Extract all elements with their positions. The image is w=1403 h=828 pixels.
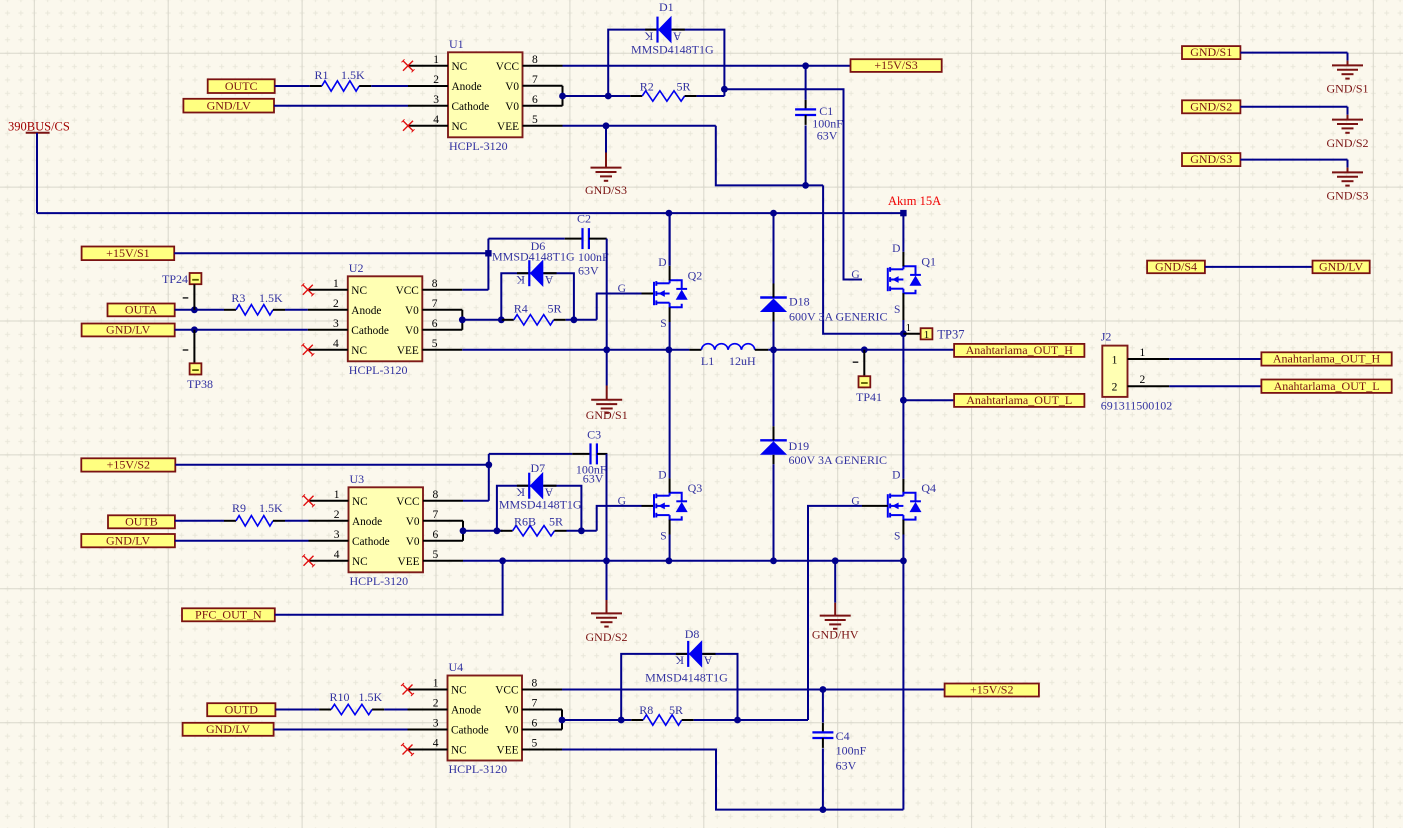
svg-text:5R: 5R [549,515,563,529]
wire +15V/S1 [174,252,488,254]
svg-text:D19: D19 [789,439,810,453]
wire to R2 [563,95,631,97]
svg-text:K: K [644,29,653,43]
svg-text:NC: NC [451,744,467,756]
svg-text:2: 2 [433,74,439,86]
svg-text:GND/LV: GND/LV [207,98,252,112]
svg-text:K: K [675,654,684,668]
svg-text:2: 2 [433,698,439,710]
svg-text:Anahtarlama_OUT_L: Anahtarlama_OUT_L [966,393,1072,407]
wire VCC column C2 [487,239,489,290]
junction U2 pins 6/7 [459,316,466,323]
svg-text:V0: V0 [505,704,519,716]
TP24 pin [193,284,195,310]
wire GND/LV to U3 pin3 [175,540,309,542]
wire GND/LV to U4 pin3 [274,729,408,731]
resistor R3 [224,305,285,315]
wire Q3 gate drive [597,506,642,531]
svg-text:8: 8 [532,678,538,690]
wire OUTD to R10 [275,709,319,711]
wire C2 top [488,238,564,240]
wire R1 to U1 pin2 [371,85,408,87]
Q4 drain pin [902,479,904,493]
junction TP38 [191,326,198,333]
svg-text:V0: V0 [406,536,420,548]
svg-text:1: 1 [433,54,439,66]
junction C4 bottom [820,806,827,813]
svg-text:Cathode: Cathode [351,325,389,337]
wire U3 pin6 bend [462,531,464,541]
wire GND/S2 [1240,106,1347,108]
wire D8 loop [621,654,737,720]
svg-text:A: A [544,273,553,287]
U1 pin 4 [408,114,448,126]
svg-text:1: 1 [333,278,339,290]
resistor R4 [502,315,566,325]
svg-text:Anode: Anode [452,81,482,93]
wire Q4 gate drive [808,506,862,720]
svg-text:5: 5 [532,114,538,126]
svg-text:1: 1 [433,678,439,690]
svg-text:R9: R9 [232,501,246,515]
junction D1 left leg [605,93,612,100]
junction D6 left leg [498,316,505,323]
port OUTB [108,514,175,528]
port OUTA [108,303,175,317]
TP41 pin [863,350,865,376]
Q3 source pin [669,520,671,535]
svg-text:Anode: Anode [352,516,382,528]
wire Q3 drain to Q2 source [669,350,671,478]
svg-text:HCPL-3120: HCPL-3120 [349,363,408,377]
svg-text:D: D [658,257,666,269]
no-ERC marker U1 pin1 [402,59,415,72]
capacitor C1 [795,100,816,125]
svg-text:C4: C4 [836,729,850,743]
port GND/LV (right) [1313,260,1370,274]
svg-text:MMSD4148T1G: MMSD4148T1G [631,43,714,57]
svg-text:4: 4 [433,738,439,750]
svg-text:D: D [658,469,666,481]
wire GND/LV to U2 pin3 [175,329,308,331]
svg-text:5R: 5R [677,80,691,94]
no-ERC marker U3 pin4 [302,554,315,567]
port GND/S2 (right) [1182,99,1240,113]
junction GND/S3 tap [603,122,610,129]
port +15V/S2 (right) [945,683,1039,697]
svg-text:1: 1 [1112,355,1118,367]
svg-text:TP38: TP38 [187,377,213,391]
wire to R4 [462,319,504,321]
svg-text:OUTB: OUTB [125,514,158,528]
svg-text:J2: J2 [1101,330,1112,344]
svg-text:V0: V0 [406,516,420,528]
svg-text:V0: V0 [505,81,519,93]
junction D6 right leg [571,316,578,323]
junction OUT_L [900,397,907,404]
svg-text:C3: C3 [587,428,601,442]
svg-text:3: 3 [334,529,340,541]
wire PFC_OUT_N [275,561,503,615]
svg-text:100nF: 100nF [578,250,609,264]
wire R4 right [566,319,597,321]
U1 pin 7 [523,74,563,86]
ground GND/S1 [586,350,628,422]
ground GND/S2 (right) [1326,107,1368,150]
wire 390BUS/CS vertical [36,133,38,213]
svg-text:MMSD4148T1G: MMSD4148T1G [499,497,582,511]
svg-text:Anode: Anode [451,704,481,716]
svg-text:VCC: VCC [496,61,519,73]
svg-text:GND/S2: GND/S2 [1326,136,1368,150]
svg-text:NC: NC [452,61,468,73]
wire OUTB to R9 [175,520,224,522]
svg-text:HCPL-3120: HCPL-3120 [449,762,508,776]
svg-text:4: 4 [433,114,439,126]
svg-text:+15V/S1: +15V/S1 [106,246,149,260]
svg-text:7: 7 [432,298,438,310]
wire GND/S1 [1240,52,1347,54]
wire Q1 source to Q4 drain [902,400,904,479]
junction U4 pins 6/7 [559,717,566,724]
svg-text:GND/S3: GND/S3 [585,183,627,197]
junction D8 left leg [618,717,625,724]
wire C4 column [822,690,824,723]
wire U1 pin6 bend [562,96,564,106]
junction D19 / rail [770,557,777,564]
svg-text:Q4: Q4 [921,481,936,495]
U2 pin 7 [422,298,462,310]
svg-text:VCC: VCC [396,496,419,508]
svg-text:63V: 63V [578,264,599,278]
wire Q2 drain to bus [668,213,670,266]
U1 pin 5 [523,114,563,126]
svg-text:1.5K: 1.5K [359,690,383,704]
U2 pin 8 [422,278,462,290]
port Anahtarlama_OUT_L (left) [954,393,1084,407]
junction C4 top [820,686,827,693]
U4 pin 3 [408,718,448,730]
op-amp U2 (HCPL-3120 optocoupler) [348,261,423,377]
svg-text:Q3: Q3 [688,481,703,495]
op-amp U1 (HCPL-3120 optocoupler) [448,37,523,153]
junction pins 6/7 [559,93,566,100]
wire C1 column [805,66,807,100]
svg-text:1: 1 [924,329,930,341]
U1 pin 8 [523,54,563,66]
svg-text:A: A [703,654,712,668]
wire +15V/S2 [175,464,489,466]
TP41 pin mark [853,361,859,363]
U2 pin 3 [308,318,348,330]
svg-text:GND/LV: GND/LV [106,323,151,337]
svg-text:3: 3 [433,718,439,730]
svg-text:V0: V0 [405,325,419,337]
U4 pin 6 [522,718,562,730]
svg-text:6: 6 [432,318,438,330]
wire J2 pin2 to port [1169,385,1261,387]
svg-text:GND/LV: GND/LV [206,722,251,736]
junction C2/GND/S1/VEE [603,346,610,353]
wire D18 column top [773,213,775,283]
svg-text:4: 4 [334,549,340,561]
capacitor C3 [572,443,607,464]
svg-text:GND/S3: GND/S3 [1326,189,1368,203]
wire Q2 source to node [669,322,671,350]
svg-text:G: G [618,495,626,507]
resistor R9 [224,516,285,526]
U4 pin 8 [522,678,562,690]
svg-text:5R: 5R [669,703,683,717]
svg-text:Q2: Q2 [688,269,703,283]
U4 pin 5 [522,738,562,750]
port GND/S3 (right) [1182,152,1240,166]
diode D18 [760,284,787,322]
svg-text:A: A [673,29,682,43]
U3 pin 2 [309,509,349,521]
transistor Q3 [642,505,655,507]
svg-text:VEE: VEE [398,556,420,568]
svg-text:U4: U4 [449,660,464,674]
svg-text:D: D [892,243,900,255]
svg-text:Anahtarlama_OUT_L: Anahtarlama_OUT_L [1274,379,1380,393]
svg-text:GND/S2: GND/S2 [585,630,627,644]
junction +15V/S2 / VCC column [485,461,492,468]
junction gate drive tap [721,86,728,93]
svg-text:L1: L1 [701,354,714,368]
wire D1 loop [608,30,724,96]
node bus end at Q1 drain [900,210,906,216]
Q2 drain pin [669,266,671,281]
svg-text:5: 5 [432,338,438,350]
wire U4 pin6 bend [561,720,563,730]
svg-text:MMSD4148T1G: MMSD4148T1G [645,671,728,685]
transistor Q4 [888,493,922,520]
port GND/LV (row4) [183,722,274,736]
svg-text:Anahtarlama_OUT_H: Anahtarlama_OUT_H [966,343,1074,357]
svg-text:D1: D1 [659,0,674,14]
ground GND/S1 (right) [1326,53,1368,96]
junction TP41 [861,346,868,353]
svg-text:63V: 63V [817,129,838,143]
svg-text:D18: D18 [789,295,810,309]
wire U1 VEE [563,125,716,127]
port +15V/S2 (left) [81,458,175,472]
svg-text:5R: 5R [548,302,562,316]
wire U3 pin7 bend [462,521,464,531]
wire R6B right [567,530,597,532]
wire U1 VCC to +15V/S3 [563,65,851,67]
junction Q2 source / switch node [666,346,673,353]
svg-text:NC: NC [451,684,467,696]
svg-text:V0: V0 [405,305,419,317]
junction +15V/S1 / VCC column [485,250,491,256]
U3 pin 7 [423,509,463,521]
ground GND/S3 [585,126,627,197]
svg-text:Anahtarlama_OUT_H: Anahtarlama_OUT_H [1273,352,1381,366]
svg-text:GND/S1: GND/S1 [586,408,628,422]
wire 390BUS/CS bus [37,212,903,214]
transistor Q2 [642,293,655,295]
J2 pin 2 [1128,374,1170,386]
no-ERC marker U1 pin4 [402,119,415,132]
wire Q2 gate drive [597,294,642,320]
svg-text:GND/S1: GND/S1 [1190,45,1232,59]
net label 390BUS/CS [8,120,70,134]
junction D7 left leg [494,527,501,534]
diode D7 [516,472,557,500]
svg-text:S: S [660,318,666,330]
svg-text:R2: R2 [640,80,654,94]
wire C3 top [489,453,572,455]
resistor R8 [631,715,694,725]
svg-text:63V: 63V [836,759,857,773]
svg-text:HCPL-3120: HCPL-3120 [350,574,409,588]
junction Q4 source / rail [900,557,907,564]
port Anahtarlama_OUT_L (right) [1261,379,1391,393]
svg-text:G: G [851,269,859,281]
diode D8 [675,640,716,668]
svg-text:691311500102: 691311500102 [1101,399,1173,413]
port GND/LV (row1) [183,98,274,112]
svg-text:VEE: VEE [497,744,519,756]
U4 pin 1 [408,678,448,690]
wire VEE down and right [716,126,823,186]
U1 pin 3 [408,94,448,106]
wire R2 to D1 right leg [697,95,725,97]
svg-text:Akım 15A: Akım 15A [888,194,941,208]
svg-text:1: 1 [906,322,912,334]
port +15V/S1 [82,246,175,260]
svg-text:63V: 63V [583,472,604,486]
svg-text:+15V/S2: +15V/S2 [970,683,1013,697]
TP24 pin mark [183,297,189,299]
wire Q1 source down [902,320,904,400]
junction GND/HV tap [832,557,839,564]
test point TP37 [903,322,920,334]
Q2 source pin [669,307,671,322]
svg-text:2: 2 [1112,382,1118,394]
Q4 source pin [902,520,904,535]
svg-text:2: 2 [1140,374,1146,386]
U4 pin 7 [522,698,562,710]
port Anahtarlama_OUT_H (right) [1261,352,1391,366]
Q1 source pin [902,293,904,320]
svg-text:HCPL-3120: HCPL-3120 [449,139,508,153]
svg-text:TP41: TP41 [856,390,882,404]
junction PFC_OUT_N / VEE rail [499,557,506,564]
wire U4 pin7 bend [561,710,563,721]
svg-text:Cathode: Cathode [352,536,390,548]
svg-text:600V 3A GENERIC: 600V 3A GENERIC [789,310,887,324]
port GND/LV (row3) [81,533,175,547]
svg-text:VEE: VEE [397,345,419,357]
svg-text:VCC: VCC [396,285,419,297]
wire GND/S4 to GND/LV [1205,266,1313,268]
port PFC_OUT_N [182,607,275,621]
resistor R10 [319,704,384,714]
ground GND/S2 [585,561,627,644]
wire C2 right down [606,239,608,350]
wire VCC column C3 [488,454,490,501]
svg-text:R8: R8 [639,703,653,717]
port GND/S4 [1147,260,1205,274]
svg-text:6: 6 [532,94,538,106]
svg-text:7: 7 [532,698,538,710]
wire D7 loop [497,486,582,531]
test point TP24 [190,273,202,284]
junction U3 pins 6/7 [460,527,467,534]
svg-text:Cathode: Cathode [452,101,490,113]
TP38 pin mark [183,349,189,351]
svg-text:S: S [894,530,900,542]
no-ERC marker U2 pin1 [301,283,314,296]
junction TP37 [900,330,907,337]
svg-text:5: 5 [532,738,538,750]
svg-text:1: 1 [1140,347,1146,359]
op-amp U3 (HCPL-3120 optocoupler) [349,472,424,588]
svg-text:1: 1 [334,489,340,501]
svg-text:NC: NC [352,496,368,508]
wire D19 column top [773,350,775,427]
U4 pin 4 [408,738,448,750]
wire R9 to U3 pin2 [285,520,309,522]
svg-text:2: 2 [333,298,339,310]
U3 pin 6 [423,529,463,541]
svg-text:NC: NC [452,121,468,133]
Q1 drain pin [902,252,904,266]
ground GND/S3 (right) [1326,160,1368,203]
U3 pin 4 [309,549,349,561]
resistor R6B [501,526,567,536]
resistor R1 [310,81,371,91]
svg-text:GND/S2: GND/S2 [1190,99,1232,113]
junction TP24 [191,306,198,313]
junction +15V/S3 / C1 [802,62,809,69]
svg-text:D7: D7 [531,461,546,475]
svg-text:GND/S1: GND/S1 [1326,82,1368,96]
junction C3/GND/S2/VEE rail [603,557,610,564]
diode D19 [760,426,787,464]
U4 pin 2 [408,698,448,710]
wire U4 VCC to +15V/S2 [562,689,945,691]
U3 pin 8 [423,489,463,501]
svg-text:R3: R3 [231,291,245,305]
svg-text:OUTA: OUTA [125,303,158,317]
U1 pin 1 [408,54,448,66]
junction C1 bottom [802,182,809,189]
wire OUTC to R1 [275,85,310,87]
svg-text:C2: C2 [577,212,591,226]
svg-text:K: K [516,273,525,287]
svg-text:+15V/S2: +15V/S2 [107,458,150,472]
wire Q3 source to rail [669,535,671,561]
port OUTC [208,79,275,93]
wire U3 VEE rail [463,560,903,562]
svg-text:MMSD4148T1G: MMSD4148T1G [492,250,575,264]
svg-text:TP24: TP24 [162,272,188,286]
svg-text:+15V/S3: +15V/S3 [874,58,917,72]
svg-text:G: G [618,283,626,295]
svg-text:Cathode: Cathode [451,724,489,736]
U2 pin 4 [308,338,348,350]
inductor L1 [689,344,768,350]
svg-text:R6B: R6B [514,515,536,529]
svg-text:U2: U2 [349,261,364,275]
U3 pin 1 [309,489,349,501]
svg-text:7: 7 [433,509,439,521]
port Anahtarlama_OUT_H (left) [954,343,1084,357]
